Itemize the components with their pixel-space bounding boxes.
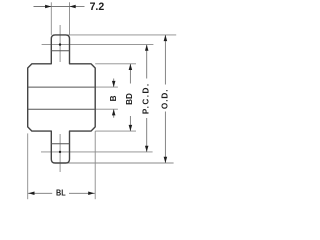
dimension O.D. line lower segment <box>164 112 166 164</box>
dimension 7.2 line <box>34 6 52 8</box>
svg-text:7.2: 7.2 <box>90 1 105 13</box>
wire top extension line right (tooth width) <box>69 2 71 35</box>
arrow BD up <box>129 64 133 70</box>
dimension BD line upper segment <box>129 64 131 84</box>
BD extension bottom <box>95 130 136 132</box>
dimension BL line right segment <box>69 192 95 194</box>
arrow 7.2 left <box>45 5 51 9</box>
pitch point dot top <box>59 43 61 45</box>
bore extension top <box>95 86 118 88</box>
arrow BL right <box>88 192 94 196</box>
sprocket body outline <box>28 35 96 163</box>
dimension BL line left segment <box>28 192 53 194</box>
O.D. extension bottom <box>67 162 174 164</box>
dimension B line bottom segment <box>113 109 115 118</box>
pitch line bottom <box>41 151 153 153</box>
bore extension bottom <box>95 108 118 110</box>
BL extension right <box>94 131 96 199</box>
svg-text:BD: BD <box>125 93 134 105</box>
arrow O.D. up <box>164 35 168 41</box>
arrow BD down <box>129 125 133 131</box>
dimension P.C.D. line upper segment <box>146 45 148 79</box>
centerline top tooth <box>59 25 61 62</box>
dimension P.C.D. line lower segment <box>146 118 148 152</box>
wire top extension line left (tooth width) <box>50 2 52 35</box>
dimension O.D. line upper segment <box>164 35 166 85</box>
tooth root line top <box>51 50 69 52</box>
arrow P.C.D. down <box>145 146 149 152</box>
dimension B line top segment <box>113 79 115 88</box>
svg-text:O.D.: O.D. <box>161 88 170 109</box>
arrow 7.2 right <box>70 5 76 9</box>
BD extension top <box>95 63 136 65</box>
arrow O.D. down <box>164 157 168 163</box>
O.D. extension top <box>66 34 176 36</box>
svg-text:P.C.D.: P.C.D. <box>142 82 151 114</box>
arrow B up <box>112 109 116 115</box>
dimension BD line lower segment <box>129 116 131 131</box>
arrow P.C.D. up <box>145 45 149 51</box>
centerline bottom tooth <box>59 134 61 172</box>
pitch point dot bottom <box>59 151 61 153</box>
pitch line top <box>42 44 154 46</box>
arrow B down <box>112 81 116 87</box>
arrow BL left <box>28 192 34 196</box>
bore line top <box>28 86 96 88</box>
BL extension left <box>27 133 29 199</box>
svg-text:B: B <box>109 95 118 101</box>
bore line bottom <box>28 108 96 110</box>
tooth root line bottom <box>51 143 69 145</box>
svg-text:BL: BL <box>56 189 66 198</box>
